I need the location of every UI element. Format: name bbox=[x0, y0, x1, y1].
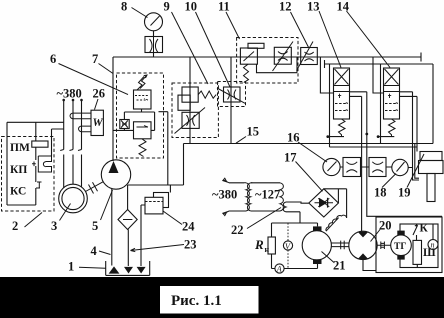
wavy cable bbox=[326, 215, 347, 231]
gauge 16 bbox=[323, 158, 340, 175]
phase line L2 bbox=[72, 100, 74, 185]
pilot box 7 X bbox=[121, 121, 128, 128]
valve 13 sections bbox=[334, 86, 350, 92]
gauge 18 bbox=[392, 159, 408, 175]
TT terminal bottom bbox=[397, 255, 404, 259]
throttle 11 bbox=[274, 47, 291, 64]
leader 5 bbox=[101, 190, 113, 220]
leader 6 bbox=[59, 64, 129, 95]
valve 14 body bbox=[384, 68, 400, 119]
gauge row connectors bbox=[340, 166, 412, 169]
leader 2 bbox=[25, 213, 43, 228]
svg-text:15: 15 bbox=[247, 125, 260, 139]
dashed box 7 bbox=[117, 73, 164, 158]
junction dot 13 bbox=[365, 133, 368, 136]
solenoid zigzag box 7 bbox=[137, 75, 147, 90]
enclosure TT box bbox=[376, 217, 442, 273]
wire pump suction bbox=[111, 189, 113, 266]
leader 10 bbox=[196, 12, 231, 87]
leader 24 bbox=[163, 211, 182, 225]
svg-text:4: 4 bbox=[91, 244, 98, 258]
valve 9 upper bbox=[182, 87, 198, 102]
valve 12 arrow bbox=[297, 42, 314, 71]
TT terminal top bbox=[397, 231, 404, 235]
wire cyl14 port B to cylinder 19 bbox=[400, 96, 418, 151]
spring below valve 7 bbox=[139, 139, 146, 157]
gauge 18 needle bbox=[397, 162, 405, 172]
throttle A arcs bbox=[346, 162, 357, 173]
valve 10 arcs bbox=[228, 90, 237, 100]
svg-text:R: R bbox=[254, 237, 264, 252]
spring 13 base bbox=[328, 136, 344, 138]
svg-text:КП: КП bbox=[10, 164, 27, 176]
n meter stub bbox=[432, 224, 434, 240]
wire return line 15 bbox=[184, 143, 434, 145]
bridge output right bbox=[324, 189, 347, 218]
shunt to loop bbox=[416, 264, 418, 267]
ammeter A bbox=[275, 264, 284, 273]
svg-text:W: W bbox=[93, 117, 104, 129]
unit 24 inner line bbox=[145, 201, 163, 203]
electric motor 3 inner bbox=[62, 187, 84, 209]
leader 4 bbox=[99, 251, 111, 255]
svg-text:18: 18 bbox=[374, 186, 387, 200]
leader 18 bbox=[382, 174, 396, 188]
cylinder 19 rod bbox=[427, 174, 435, 202]
shunt resistor Sh bbox=[413, 240, 422, 264]
wire filter to tank bbox=[127, 230, 129, 267]
svg-text:7: 7 bbox=[92, 52, 98, 66]
wire T-return line upper bbox=[325, 60, 434, 144]
svg-text:24: 24 bbox=[182, 220, 195, 234]
leader 7 bbox=[99, 64, 114, 74]
svg-text:2: 2 bbox=[12, 219, 18, 233]
tank suction triangle bbox=[109, 266, 120, 273]
gauge 8 branch bbox=[153, 31, 155, 57]
svg-text:13: 13 bbox=[307, 0, 320, 14]
spring 14 base dot bbox=[377, 135, 380, 138]
wire drop x329 bbox=[329, 64, 331, 147]
valve 12 bbox=[301, 48, 318, 65]
diode bar bbox=[327, 198, 329, 208]
leader 20 bbox=[371, 230, 381, 242]
bypass loop 11 bbox=[257, 57, 298, 73]
wire unit24 to tank bbox=[141, 205, 145, 266]
spring 14 base bbox=[378, 136, 394, 138]
box 7 inlet stub bbox=[113, 129, 134, 131]
valve 13 body bbox=[334, 68, 350, 119]
svg-text:14: 14 bbox=[337, 0, 350, 14]
shaft coupling 20-TT bbox=[377, 242, 391, 250]
relief valve 11 arrow bbox=[244, 52, 255, 62]
throttle 11 arrow bbox=[273, 42, 294, 72]
wire return elbow to filter bbox=[128, 144, 184, 210]
motor 20 bottom triangle bbox=[358, 253, 369, 259]
svg-text:16: 16 bbox=[287, 131, 300, 145]
wire second collector line bbox=[330, 146, 418, 148]
spring 13 bbox=[339, 119, 346, 137]
pressure relay KP bbox=[32, 156, 52, 172]
svg-text:~380: ~380 bbox=[212, 188, 237, 202]
svg-text:17: 17 bbox=[284, 151, 297, 165]
contactor coil PM bbox=[32, 141, 48, 147]
gauge 16 needle bbox=[328, 162, 337, 172]
wire cyl14 port A bbox=[400, 92, 420, 180]
leader 3 bbox=[60, 204, 71, 221]
machine 21 terminal top bbox=[313, 226, 322, 231]
diode in bridge bbox=[315, 202, 334, 204]
svg-text:21: 21 bbox=[333, 259, 346, 273]
svg-text:19: 19 bbox=[398, 186, 411, 200]
valve 10 bbox=[224, 87, 241, 102]
transformer winding 1 secondary bbox=[247, 183, 252, 211]
cylinder 19 body bbox=[419, 161, 444, 174]
leader 17 bbox=[296, 162, 323, 192]
motor 20 drain bbox=[363, 260, 376, 271]
level switch KS bbox=[36, 182, 42, 188]
svg-text:10: 10 bbox=[185, 0, 198, 14]
throttle 9 arcs bbox=[187, 115, 195, 126]
svg-text:11: 11 bbox=[218, 0, 230, 14]
svg-text:9: 9 bbox=[164, 0, 170, 14]
control tap wires bbox=[7, 122, 64, 205]
throttle 9 bbox=[182, 112, 199, 128]
throttle B gauge row bbox=[369, 158, 386, 177]
TT inner loop bbox=[400, 224, 438, 268]
leader 11 bbox=[226, 12, 240, 39]
wire supply cylinder 14 bbox=[373, 57, 384, 93]
electric motor 3 outer bbox=[59, 184, 88, 213]
wire drop to valve 9 bbox=[189, 57, 191, 144]
valve 7 upper bbox=[134, 90, 152, 109]
leader 15 bbox=[236, 137, 246, 144]
transformer 22 winding primary bbox=[280, 183, 283, 211]
tank 1 bbox=[106, 261, 150, 275]
valve 13 spool marks bbox=[335, 102, 348, 110]
svg-text:ПМ: ПМ bbox=[10, 142, 30, 154]
svg-text:3: 3 bbox=[51, 219, 57, 233]
n meter bbox=[428, 240, 438, 250]
filter dash bbox=[123, 219, 132, 221]
cylinder 19 cap bbox=[420, 152, 442, 161]
valve 14 spool marks bbox=[385, 102, 398, 110]
svg-text:ТГ: ТГ bbox=[394, 242, 406, 252]
svg-text:A: A bbox=[276, 265, 282, 274]
load loop wires bbox=[272, 223, 318, 269]
svg-text:n: n bbox=[431, 241, 435, 250]
unit 24 box B bbox=[145, 197, 163, 214]
leader 8 bbox=[132, 8, 148, 18]
hydraulic motor 20 bbox=[349, 231, 377, 259]
shaft motor-pump bbox=[86, 182, 104, 194]
filter 23 bbox=[118, 210, 137, 230]
valve 7 lower bbox=[134, 122, 152, 139]
wire drop to valve 10 bbox=[230, 57, 232, 144]
spring 13 base dot bbox=[326, 135, 329, 138]
tank return arrow 2 bbox=[137, 267, 146, 274]
valve 13 X bbox=[335, 69, 349, 85]
spring 14 bbox=[389, 119, 396, 137]
svg-text:~380: ~380 bbox=[57, 87, 82, 101]
svg-text:8: 8 bbox=[121, 0, 127, 14]
leader 9 bbox=[172, 12, 209, 84]
caption box bbox=[160, 286, 259, 314]
svg-text:12: 12 bbox=[279, 0, 292, 14]
black caption bar bbox=[0, 277, 444, 318]
motor 20 top triangle bbox=[358, 232, 369, 238]
shaft coupling 21-20 bbox=[332, 241, 350, 250]
leader 22 bbox=[247, 208, 281, 229]
gauge 8 bbox=[145, 13, 163, 31]
switch K bbox=[413, 224, 418, 240]
gauge 8 needle bbox=[151, 16, 160, 26]
transformer winding 1 primary bbox=[244, 183, 249, 211]
valve 14 X bbox=[385, 69, 399, 85]
phase line L3 bbox=[81, 100, 83, 187]
dashed box 11 bbox=[237, 38, 298, 84]
dashed box 9 bbox=[172, 83, 218, 138]
throttle B arcs bbox=[372, 162, 383, 173]
valve 13 stub bbox=[338, 94, 341, 98]
transformer link wires bbox=[244, 183, 280, 211]
leader 12 bbox=[291, 12, 309, 48]
box 7 internal wires bbox=[124, 109, 154, 130]
dashed box 10 bbox=[218, 82, 246, 107]
control riser bbox=[35, 122, 37, 205]
leader 21 bbox=[322, 252, 335, 263]
transformer input arrows bbox=[223, 178, 229, 215]
leader 26 bbox=[95, 99, 99, 110]
wattmeter tap 2 bbox=[79, 126, 92, 132]
svg-text:6: 6 bbox=[50, 52, 56, 66]
wire cyl13 port A bbox=[350, 92, 443, 217]
valve 9 overlap box bbox=[178, 95, 190, 110]
wire main pressure line bbox=[113, 56, 421, 58]
wire supply cylinder 13 bbox=[320, 57, 333, 93]
svg-text:22: 22 bbox=[231, 223, 244, 237]
orphan diagonal bbox=[326, 218, 339, 232]
valve 7 lower arrow bbox=[137, 126, 149, 128]
relief valve 11 bbox=[240, 48, 257, 64]
valve 8 arcs bbox=[150, 37, 159, 53]
valve under gauge 8 bbox=[145, 37, 163, 53]
svg-text:26: 26 bbox=[93, 87, 106, 101]
valve 14 sections bbox=[384, 86, 400, 92]
leader 1 bbox=[79, 267, 106, 268]
tachogenerator TT bbox=[391, 235, 412, 256]
valve 10 arrow bbox=[217, 88, 245, 103]
contactor contacts bbox=[60, 150, 81, 151]
svg-text:5: 5 bbox=[92, 219, 98, 233]
valve 7 upper arrow bbox=[135, 96, 149, 101]
throttle 9 arrow bbox=[175, 108, 206, 134]
wire cyl13 port B to motor 20 bbox=[350, 96, 362, 231]
svg-text:н: н bbox=[265, 245, 270, 254]
phase line L1 bbox=[63, 100, 65, 188]
throttle A gauge row bbox=[343, 158, 361, 177]
wire pump riser bbox=[112, 57, 114, 161]
svg-text:Рис. 1.1: Рис. 1.1 bbox=[171, 293, 222, 309]
leader 13 bbox=[319, 11, 341, 68]
voltmeter branch bbox=[287, 223, 289, 269]
wattmeter tap 1 bbox=[70, 113, 91, 119]
svg-text:К: К bbox=[420, 223, 429, 235]
svg-text:1: 1 bbox=[68, 260, 74, 274]
leader 14 bbox=[347, 11, 391, 68]
diode triangle bbox=[319, 198, 327, 208]
bridge input wire bottom bbox=[286, 212, 300, 223]
leader 16 bbox=[298, 142, 327, 162]
valve 12 arcs bbox=[305, 52, 314, 61]
svg-text:23: 23 bbox=[184, 238, 197, 252]
pump 5 triangle bbox=[109, 161, 119, 173]
DC machine 21 bbox=[302, 231, 331, 260]
rectifier bridge bbox=[309, 189, 339, 217]
wire line end tick bbox=[420, 53, 422, 62]
wire box7 drain bbox=[159, 112, 168, 185]
wattmeter 26 box bbox=[91, 110, 103, 135]
throttle 11 arcs bbox=[278, 52, 288, 61]
transformer 22 winding secondary bbox=[283, 202, 286, 212]
machine 21 terminal bottom bbox=[313, 259, 322, 264]
svg-text:20: 20 bbox=[379, 219, 392, 233]
tank return arrow 1 bbox=[124, 267, 133, 274]
bridge input wire top bbox=[286, 202, 309, 203]
spring below relief 11 bbox=[244, 64, 249, 82]
voltmeter V bbox=[283, 241, 292, 250]
load resistor Rn bbox=[268, 237, 275, 254]
spring right of valve 9 bbox=[198, 91, 216, 98]
phase terminals bbox=[62, 99, 65, 102]
leader 23 bbox=[131, 245, 185, 252]
wire drop x380 bbox=[380, 64, 382, 144]
transformer input wires bbox=[229, 183, 244, 211]
relief valve 11 tab bbox=[248, 43, 264, 48]
wire elbow to unit 24 bbox=[169, 185, 171, 193]
leader 19 bbox=[407, 154, 424, 188]
unit 24 box A bbox=[154, 193, 169, 208]
pump 5 bbox=[101, 160, 130, 189]
svg-text:~127: ~127 bbox=[255, 188, 280, 202]
pilot box 7 bbox=[120, 120, 129, 129]
valve 14 stub bbox=[388, 94, 391, 98]
dashed box 2 bbox=[2, 137, 55, 212]
svg-text:КС: КС bbox=[10, 186, 26, 198]
